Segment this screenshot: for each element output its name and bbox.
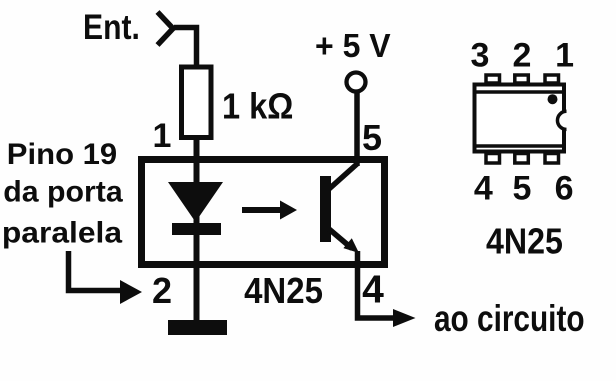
IC pin 1 marker dot [548,94,558,104]
svg-text:ao circuito: ao circuito [434,299,585,340]
IC pin stub top pin 3 [486,75,500,83]
wire Pino 19 pointer elbow [69,251,122,291]
svg-text:5: 5 [362,117,382,158]
svg-text:5: 5 [513,170,532,208]
IC pin stub top pin 1 [545,75,559,83]
LED D1 anode triangle [168,182,223,222]
svg-text:3: 3 [471,37,490,75]
IC pin stub bottom pin 5 [515,154,529,164]
+5V supply terminal circle [347,73,366,92]
svg-text:4N25: 4N25 [486,222,563,262]
IC notch semicircle [557,111,566,129]
svg-text:+ 5 V: + 5 V [315,28,391,65]
svg-text:6: 6 [555,170,574,208]
svg-text:2: 2 [152,270,172,311]
svg-text:1: 1 [153,117,172,155]
svg-text:paralela: paralela [2,215,123,249]
transistor Q1 emitter line [329,229,352,249]
light emission arrow [242,201,297,220]
svg-text:4: 4 [474,170,493,208]
svg-text:4: 4 [362,269,384,312]
svg-text:2: 2 [513,37,532,75]
wire collector to +5V terminal [354,92,360,166]
output arrowhead [393,309,416,327]
svg-text:1: 1 [555,37,574,75]
svg-text:Pino 19: Pino 19 [7,137,117,170]
IC pin stub bottom pin 4 [486,154,500,164]
optocoupler U1 body box [142,160,385,265]
svg-text:Ent.: Ent. [83,7,140,47]
wire resistor bottom through LED to ground [194,136,200,321]
IC U1 DIP package body [473,85,566,152]
transistor Q1 base plate [320,176,331,242]
IC pin stub top pin 2 [515,75,529,83]
svg-text:4N25: 4N25 [244,272,323,312]
LED D1 cathode bar [172,223,221,235]
transistor Q1 emitter arrowhead [343,238,359,253]
wire input chevron to resistor top [174,28,197,67]
ground symbol [168,320,227,335]
node Ent. input terminal chevron [158,12,174,45]
svg-text:1 kΩ: 1 kΩ [222,87,293,127]
transistor Q1 collector line [329,164,358,190]
svg-text:da porta: da porta [3,176,123,209]
resistor R1 [182,67,212,138]
Pino 19 pointer arrowhead [120,280,142,304]
wire emitter to output with bend [358,251,396,318]
IC pin stub bottom pin 6 [545,154,559,164]
